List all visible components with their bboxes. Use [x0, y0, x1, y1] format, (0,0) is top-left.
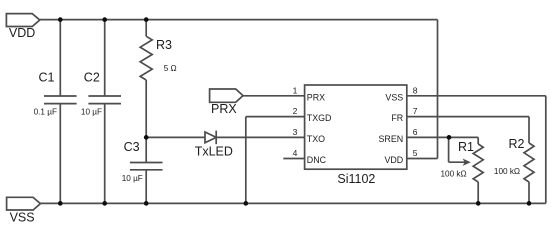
svg-text:5 Ω: 5 Ω: [164, 64, 177, 73]
svg-text:8: 8: [413, 85, 418, 95]
svg-text:FR: FR: [391, 113, 403, 123]
svg-text:7: 7: [413, 106, 418, 116]
svg-text:PRX: PRX: [307, 92, 325, 102]
svg-text:TXO: TXO: [307, 134, 325, 144]
svg-text:C2: C2: [84, 70, 100, 84]
svg-text:R1: R1: [458, 140, 474, 154]
svg-text:0.1 µF: 0.1 µF: [34, 108, 57, 117]
svg-text:Si1102: Si1102: [337, 172, 375, 186]
svg-text:3: 3: [293, 127, 298, 137]
svg-text:TXGD: TXGD: [307, 113, 332, 123]
svg-text:TxLED: TxLED: [195, 144, 233, 158]
svg-text:VDD: VDD: [384, 155, 403, 165]
svg-text:R3: R3: [156, 38, 172, 52]
svg-text:10 µF: 10 µF: [81, 108, 102, 117]
svg-text:VSS: VSS: [385, 92, 403, 102]
svg-text:R2: R2: [509, 137, 525, 151]
svg-text:100 kΩ: 100 kΩ: [494, 167, 520, 176]
svg-text:10 µF: 10 µF: [122, 174, 143, 183]
svg-text:DNC: DNC: [307, 155, 327, 165]
svg-text:SREN: SREN: [379, 134, 404, 144]
svg-text:6: 6: [413, 127, 418, 137]
svg-text:4: 4: [293, 148, 298, 158]
svg-text:5: 5: [413, 148, 418, 158]
svg-text:VSS: VSS: [10, 210, 35, 224]
svg-text:PRX: PRX: [211, 102, 237, 116]
svg-text:C3: C3: [124, 140, 140, 154]
svg-text:2: 2: [293, 106, 298, 116]
svg-text:100 kΩ: 100 kΩ: [441, 170, 467, 179]
svg-text:1: 1: [293, 85, 298, 95]
svg-text:VDD: VDD: [9, 26, 35, 40]
svg-text:C1: C1: [39, 70, 55, 84]
